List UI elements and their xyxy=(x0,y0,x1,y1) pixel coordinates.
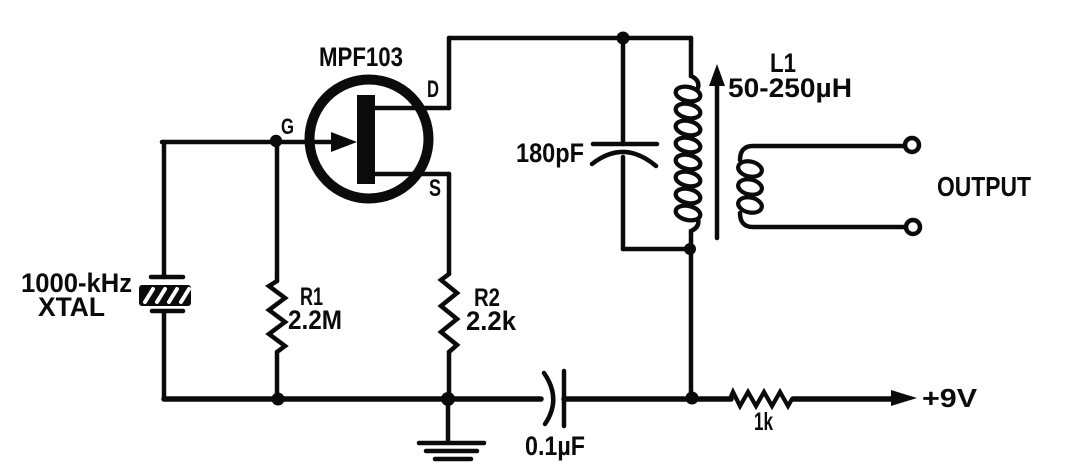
node R2 / ground junction dot xyxy=(441,392,455,406)
node top junction dot xyxy=(617,32,630,45)
inductor L1 tuning arrow xyxy=(715,80,720,238)
ground bar 1 xyxy=(419,441,484,446)
crystal Y1 top plate xyxy=(151,275,183,280)
wire tank drop to +9V rail xyxy=(689,249,694,399)
ground stub xyxy=(446,399,451,441)
svg-text:1k: 1k xyxy=(754,408,773,436)
resistor R2 top lead (from source) xyxy=(447,174,452,274)
crystal Y1 body (hatched) xyxy=(139,285,191,306)
ground bar 2 xyxy=(426,449,477,454)
capacitor C2 0.1uF straight plate xyxy=(562,371,567,426)
resistor R3 1k zigzag xyxy=(730,392,792,406)
transistor Q1 channel bar xyxy=(357,95,375,184)
node tank bottom junction dot xyxy=(684,243,696,255)
ground bar 3 xyxy=(435,457,471,462)
svg-text:D: D xyxy=(427,76,439,103)
transistor Q1 source lead xyxy=(374,172,449,177)
wire drain riser xyxy=(447,38,452,108)
inductor L1 winding loops xyxy=(674,85,701,223)
capacitor C1 180pF bottom lead xyxy=(621,157,626,249)
capacitor C1 180pF top lead xyxy=(621,38,626,144)
capacitor C2 0.1uF curved plate xyxy=(544,373,553,424)
wire bottom rail middle (C2 to 1k resistor) xyxy=(564,396,731,402)
node R1 rail junction dot xyxy=(272,393,285,406)
resistor R2 zigzag xyxy=(441,274,457,352)
wire gate bus (XTAL top to gate) xyxy=(162,140,348,145)
svg-text:2.2M: 2.2M xyxy=(288,305,342,335)
transistor Q1 drain lead xyxy=(374,106,449,111)
svg-text:0.1µF: 0.1µF xyxy=(525,431,585,461)
inductor L1 top lead xyxy=(691,38,698,88)
crystal Y1 bottom plate xyxy=(152,309,183,314)
transformer secondary top wire xyxy=(740,146,906,160)
wire left column (gate to XTAL top plate) xyxy=(162,142,167,277)
svg-text:2.2k: 2.2k xyxy=(466,306,517,336)
svg-text:OUTPUT: OUTPUT xyxy=(937,171,1031,202)
+9V arrowhead xyxy=(891,390,917,406)
inductor L1 bottom lead xyxy=(691,219,698,249)
node rail junction dot xyxy=(686,392,699,405)
svg-text:MPF103: MPF103 xyxy=(319,42,403,72)
wire top rail xyxy=(449,36,691,41)
transistor Q1 gate arrowhead xyxy=(331,132,357,152)
svg-text:S: S xyxy=(429,175,441,202)
transformer secondary bottom wire xyxy=(740,213,906,227)
node G junction dot xyxy=(270,135,282,147)
terminal bottom output xyxy=(906,220,920,234)
capacitor C1 180pF curved plate xyxy=(592,152,656,166)
resistor R2 bottom lead xyxy=(447,352,452,399)
capacitor C1 180pF straight plate xyxy=(593,142,657,147)
svg-text:180pF: 180pF xyxy=(516,138,584,168)
wire XTAL bottom to ground rail xyxy=(162,312,167,399)
wire bottom rail left (XTAL to capacitor C2) xyxy=(164,396,541,402)
op: JFET Q1 MPF103 circle xyxy=(310,80,429,199)
resistor R1 bottom lead xyxy=(275,352,280,399)
svg-text:G: G xyxy=(281,114,294,139)
resistor R1 top lead xyxy=(275,141,280,281)
wire bottom rail right (1k to +9V arrow) xyxy=(793,396,895,402)
terminal top output xyxy=(905,138,919,152)
svg-text:50-250µH: 50-250µH xyxy=(728,73,852,103)
resistor R1 zigzag xyxy=(269,281,285,352)
svg-text:+9V: +9V xyxy=(922,383,978,413)
wire tank bottom xyxy=(623,247,690,252)
transformer secondary loops xyxy=(737,159,764,215)
svg-text:XTAL: XTAL xyxy=(38,292,105,322)
